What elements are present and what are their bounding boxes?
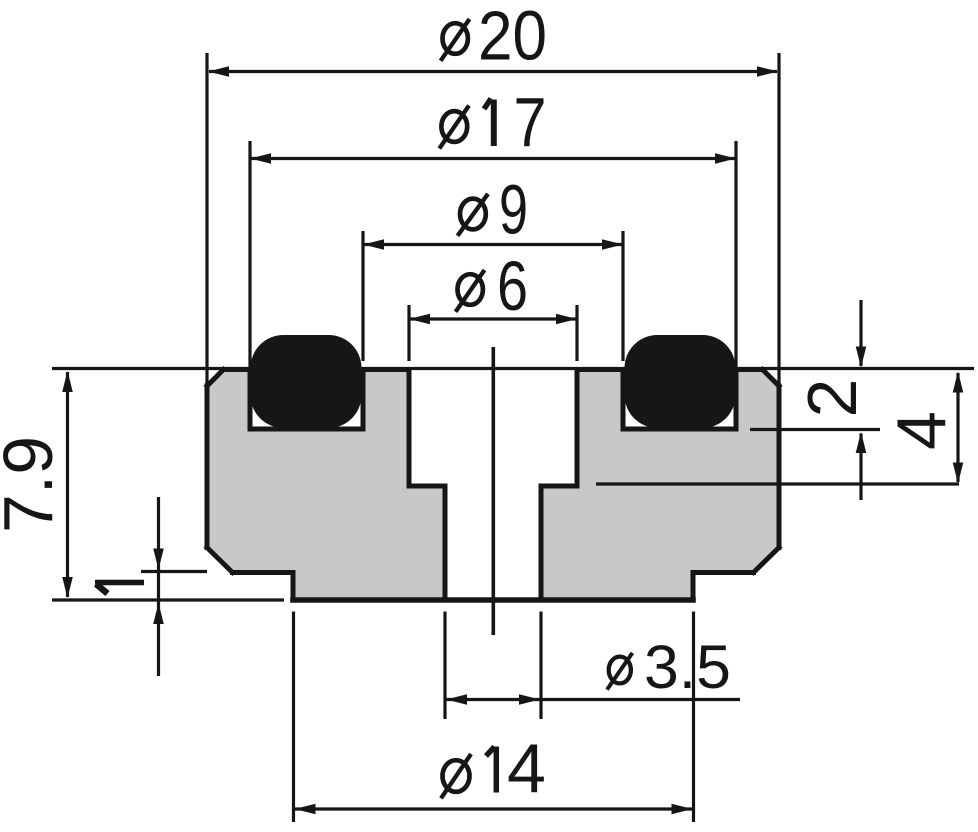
boss left side [291, 573, 296, 601]
right edge [777, 386, 782, 548]
reference line groove bottom (2) [750, 428, 880, 431]
groove left inner wall [361, 370, 366, 430]
groove right outer wall [734, 370, 739, 430]
arrow ø9 left [363, 239, 384, 250]
svg-text:20: 20 [478, 0, 547, 75]
arrow ø17 left [250, 153, 271, 164]
bore left wall [443, 486, 448, 600]
arrow 2 upper [856, 347, 867, 368]
label ø6 symbol [456, 270, 485, 312]
chamfer bottom-left [207, 548, 233, 573]
counterbore bottom right [541, 484, 577, 489]
bottom face right [693, 570, 754, 575]
arrow ø3.5 left [446, 694, 467, 705]
arrow 7.9 bottom [62, 577, 73, 598]
label 1 (rotated, custom) [95, 583, 144, 594]
arrow ø6 left [409, 314, 430, 325]
chamfer top-right [763, 370, 780, 387]
extension line left (ø20) [205, 53, 208, 386]
svg-text:7: 7 [514, 83, 547, 161]
boss right side [691, 573, 696, 601]
svg-text:9: 9 [499, 171, 528, 249]
dimension line ø6 [410, 317, 576, 320]
O-ring left [251, 335, 362, 428]
svg-text:4: 4 [883, 411, 961, 450]
label ø20 symbol [441, 19, 470, 61]
arrow 1 lower [153, 603, 164, 624]
dimension line ø9 [364, 243, 622, 246]
svg-text:4: 4 [507, 730, 546, 808]
label ø3.5 symbol [607, 653, 632, 690]
arrow 4 top [953, 372, 964, 393]
extension line left (ø14) [292, 612, 295, 823]
extension line left (ø17) [248, 141, 251, 368]
chamfer bottom-right [754, 548, 780, 573]
arrow ø3.5 right [519, 694, 540, 705]
arrow ø17 right [715, 153, 736, 164]
part outline (thick) [207, 370, 779, 601]
svg-text:3.5: 3.5 [644, 633, 731, 701]
dimension line 1 [157, 497, 160, 676]
arrow 2 lower [856, 432, 867, 453]
dimension line ø20 [209, 70, 777, 73]
arrow 4 bottom [953, 463, 964, 484]
dimension line 7.9 (vertical, left) [66, 372, 69, 597]
label ø17 symbol [439, 106, 469, 149]
arrow 7.9 top [62, 371, 73, 392]
dimension line ø17 [251, 157, 735, 160]
dimension line ø3.5 [446, 698, 740, 701]
dimension line ø14 [295, 807, 692, 810]
thin reference line across top surface [52, 367, 974, 370]
arrow ø14 right [672, 804, 693, 815]
bore right wall [539, 486, 544, 600]
dimension line 4 (vertical, right) [956, 373, 959, 482]
counterbore bottom left [409, 484, 445, 489]
extension line left (ø9) [361, 231, 364, 361]
centerline [491, 347, 495, 635]
extension line left (ø3.5) [443, 612, 446, 720]
label ø14 digit 1 (custom) [486, 747, 496, 793]
label ø9 symbol [458, 194, 489, 236]
reference line for 1 [141, 570, 207, 573]
svg-text:2: 2 [793, 379, 871, 418]
counterbore right wall [575, 370, 580, 487]
extension line right (ø17) [734, 141, 737, 368]
groove right inner wall [621, 370, 626, 430]
extension line right (ø6) [575, 305, 578, 361]
top surface line segments [224, 367, 763, 372]
label ø14 symbol [441, 754, 471, 798]
extension line right (ø9) [621, 231, 624, 361]
chamfer top-left [207, 370, 224, 387]
part body (gray cross-section fill) [207, 370, 779, 601]
arrow ø6 right [556, 314, 577, 325]
arrow ø14 left [295, 804, 316, 815]
extension line right (ø14) [692, 612, 695, 823]
groove left outer wall [248, 370, 253, 430]
extension line counterbore bottom (4) [596, 482, 959, 485]
svg-text:6: 6 [497, 247, 528, 325]
O-ring right [625, 335, 736, 428]
arrow ø9 right [602, 239, 623, 250]
boss bottom [293, 597, 693, 603]
groove left bottom [250, 427, 363, 432]
label ø17 digit 1 (custom) [484, 99, 494, 147]
counterbore left wall [407, 370, 412, 487]
svg-text:7.9: 7.9 [0, 436, 67, 533]
extension line right (ø20) [777, 53, 780, 386]
bottom reference line (7.9) [52, 598, 284, 601]
extension line right (ø3.5) [539, 612, 542, 720]
bottom face left [233, 570, 294, 575]
arrow ø20 left [208, 66, 229, 77]
groove right bottom [623, 427, 736, 432]
left edge [205, 386, 210, 548]
arrow 1 upper [153, 549, 164, 570]
dimension line 2 upper segment [859, 300, 862, 366]
extension line left (ø6) [407, 305, 410, 361]
dimension line 2 lower segment [859, 434, 862, 501]
arrow ø20 right [757, 66, 778, 77]
